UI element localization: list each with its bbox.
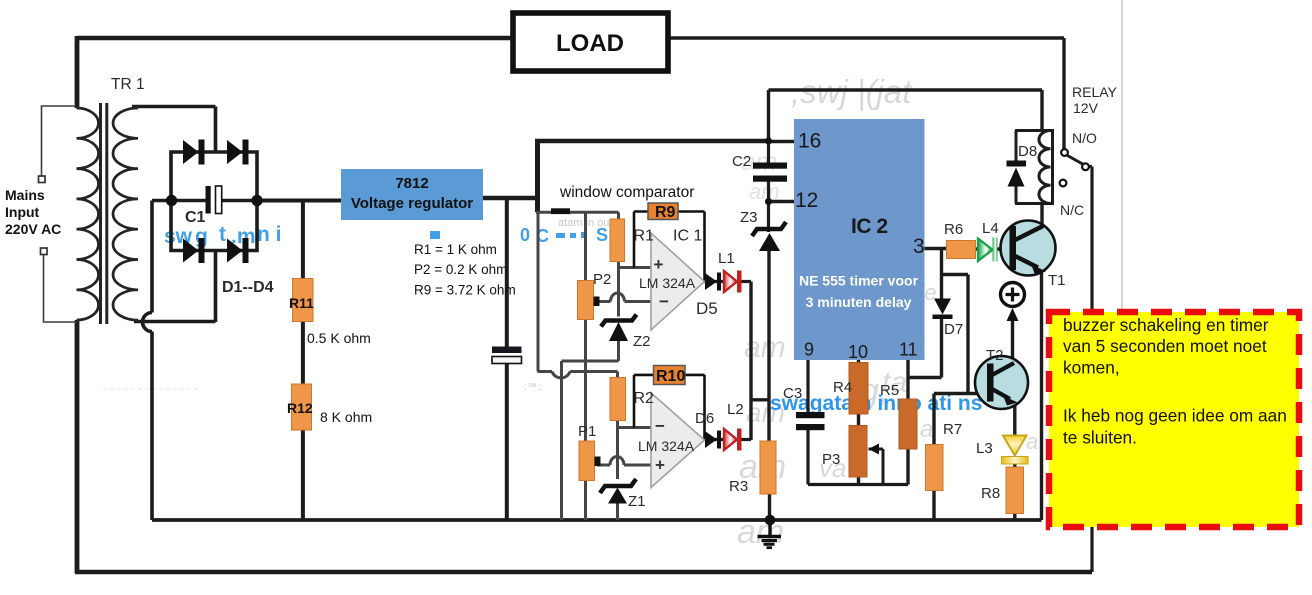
svg-text:R9 = 3.72 K ohm: R9 = 3.72 K ohm xyxy=(414,283,516,298)
svg-text:P2 = 0.2 K ohm: P2 = 0.2 K ohm xyxy=(414,262,507,277)
svg-text:Z3: Z3 xyxy=(740,209,758,226)
svg-text:R3: R3 xyxy=(729,478,748,495)
svg-text:LOAD: LOAD xyxy=(556,30,624,57)
svg-text::™:;: :™:; xyxy=(524,382,542,393)
svg-text:L4: L4 xyxy=(982,220,999,237)
svg-text:R9: R9 xyxy=(655,204,676,221)
svg-text:8 K ohm: 8 K ohm xyxy=(320,409,372,425)
svg-text:R4: R4 xyxy=(833,379,852,396)
svg-text:LM 324A: LM 324A xyxy=(638,438,695,454)
svg-text:N/O: N/O xyxy=(1072,130,1097,146)
svg-text:TR 1: TR 1 xyxy=(111,76,145,93)
svg-text:R2: R2 xyxy=(634,390,655,407)
svg-text:R1 = 1 K ohm: R1 = 1 K ohm xyxy=(414,242,497,257)
svg-text:Mains: Mains xyxy=(5,187,45,203)
svg-text:P3: P3 xyxy=(822,451,840,468)
svg-text:16: 16 xyxy=(798,130,821,153)
svg-text:van 5 seconden moet noet: van 5 seconden moet noet xyxy=(1063,336,1267,356)
svg-text:R11: R11 xyxy=(289,295,314,311)
svg-text:IC 1: IC 1 xyxy=(673,228,702,245)
svg-text:+: + xyxy=(654,255,664,274)
svg-text:D8: D8 xyxy=(1018,143,1037,160)
svg-text:L3: L3 xyxy=(976,440,993,457)
svg-text:L1: L1 xyxy=(718,250,735,267)
svg-text:R7: R7 xyxy=(943,421,962,438)
svg-text:12V: 12V xyxy=(1073,100,1099,116)
svg-text:11: 11 xyxy=(899,340,918,360)
svg-text:3 minuten delay: 3 minuten delay xyxy=(806,294,912,310)
svg-text:S: S xyxy=(596,225,608,245)
svg-text:C2: C2 xyxy=(732,153,751,170)
svg-text:R6: R6 xyxy=(944,221,963,238)
svg-text:Ik heb nog geen idee om aan: Ik heb nog geen idee om aan xyxy=(1063,406,1287,426)
svg-text:Voltage regulator: Voltage regulator xyxy=(351,195,473,212)
svg-text:komen,: komen, xyxy=(1063,358,1120,378)
svg-text:LM 324A: LM 324A xyxy=(639,275,696,291)
svg-text:R1: R1 xyxy=(634,228,655,245)
svg-text:C3: C3 xyxy=(783,385,802,402)
svg-text:N/C: N/C xyxy=(1060,202,1084,218)
svg-text:−: − xyxy=(659,292,669,311)
svg-text:te sluiten.: te sluiten. xyxy=(1063,428,1137,448)
svg-text:+: + xyxy=(655,456,665,475)
svg-text:C1: C1 xyxy=(185,209,206,226)
svg-text:3: 3 xyxy=(913,235,925,258)
svg-text:IC 2: IC 2 xyxy=(851,215,888,238)
svg-text:0: 0 xyxy=(520,225,530,245)
svg-text:D7: D7 xyxy=(944,321,963,338)
svg-text:9: 9 xyxy=(804,340,814,360)
svg-text:Input: Input xyxy=(5,204,40,220)
svg-text:R5: R5 xyxy=(880,382,899,399)
svg-text:R12: R12 xyxy=(287,400,313,416)
svg-text:D5: D5 xyxy=(696,299,718,318)
svg-text:T1: T1 xyxy=(1048,272,1066,289)
svg-text:n i: n i xyxy=(257,223,282,246)
svg-text:7812: 7812 xyxy=(395,175,428,192)
svg-text:10: 10 xyxy=(848,342,868,362)
svg-text:RELAY: RELAY xyxy=(1072,84,1118,100)
svg-text:12: 12 xyxy=(795,189,818,212)
svg-text:220V AC: 220V AC xyxy=(5,221,61,237)
svg-text:a: a xyxy=(920,416,933,443)
svg-text:D1--D4: D1--D4 xyxy=(222,279,274,296)
svg-text:D6: D6 xyxy=(695,410,714,427)
svg-text:R10: R10 xyxy=(656,368,685,385)
svg-text:t: t xyxy=(219,223,226,246)
svg-text:−: − xyxy=(655,417,665,436)
svg-text:Z1: Z1 xyxy=(628,493,646,510)
svg-text:NE 555 timer voor: NE 555 timer voor xyxy=(799,273,919,289)
svg-text:R8: R8 xyxy=(981,485,1000,502)
svg-text:window comparator: window comparator xyxy=(559,184,694,201)
svg-text:L2: L2 xyxy=(727,401,744,418)
svg-text:T2: T2 xyxy=(986,347,1004,364)
svg-text:P2: P2 xyxy=(593,271,611,288)
svg-text:a: a xyxy=(1026,429,1038,454)
svg-text:0.5 K ohm: 0.5 K ohm xyxy=(307,330,371,346)
svg-text:buzzer schakeling en timer: buzzer schakeling en timer xyxy=(1063,315,1269,335)
svg-text:P1: P1 xyxy=(578,423,596,440)
svg-text:Z2: Z2 xyxy=(633,333,651,350)
